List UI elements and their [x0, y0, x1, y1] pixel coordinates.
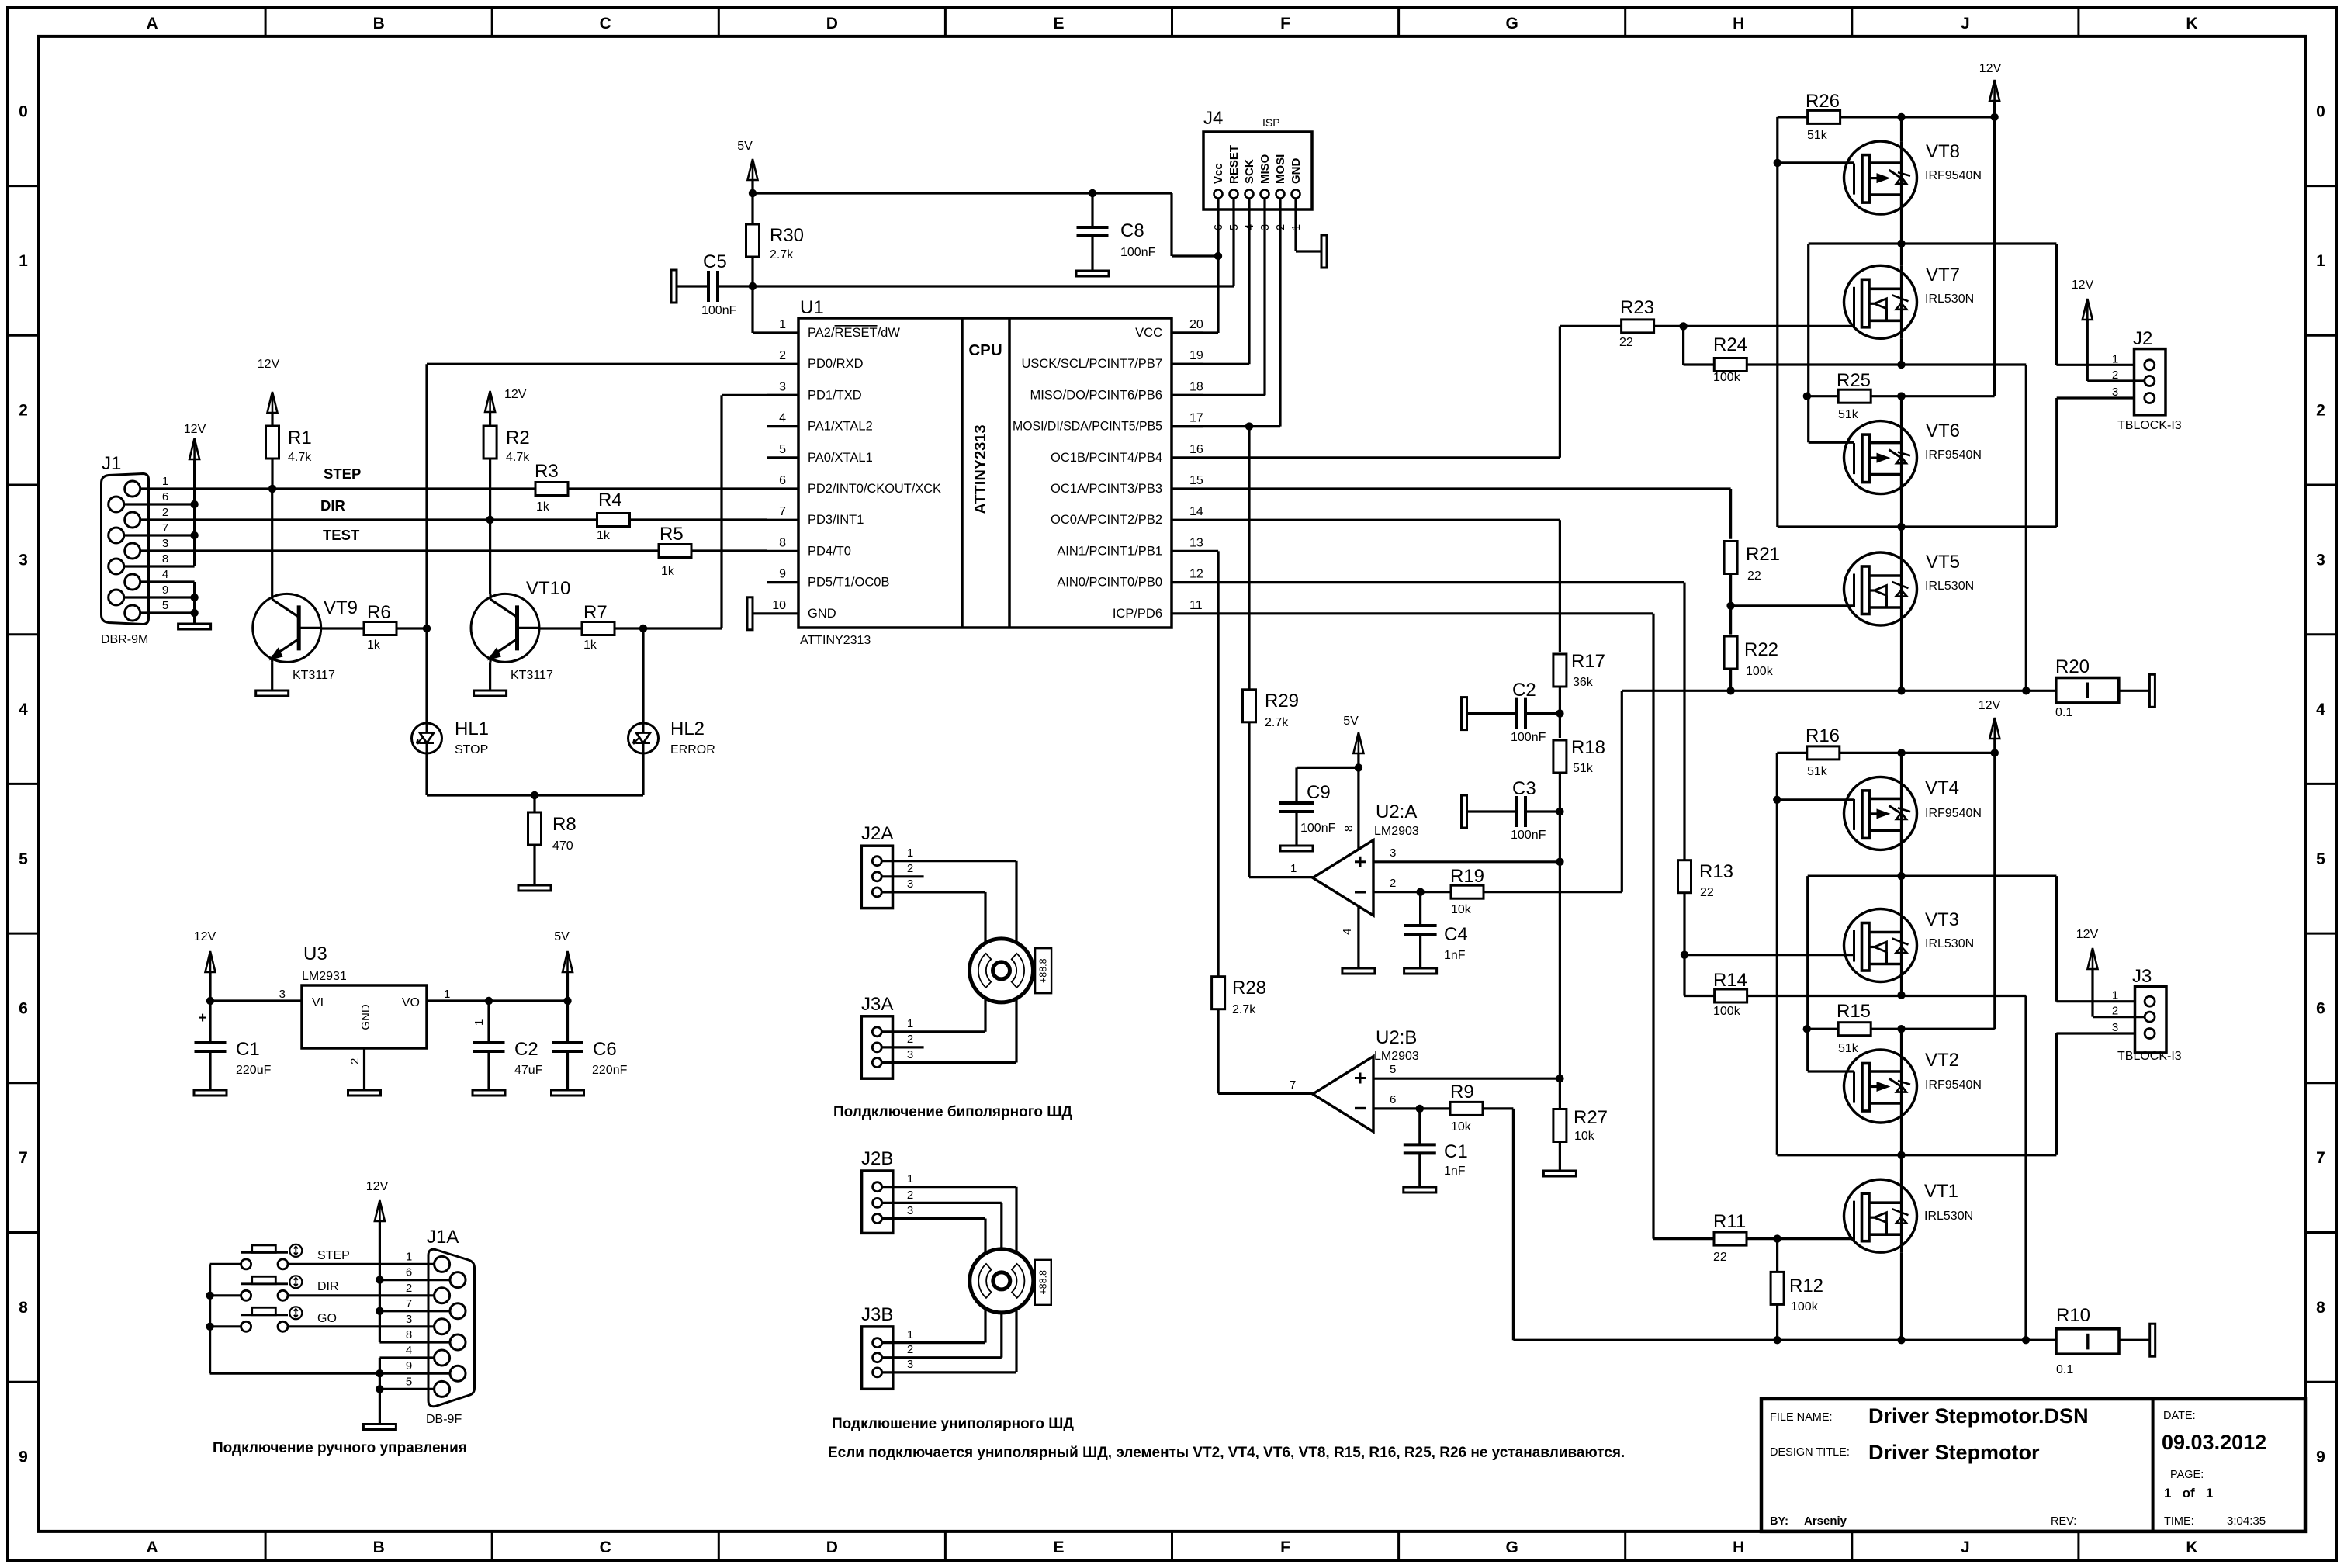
svg-text:J: J	[1961, 15, 1970, 33]
svg-text:R25: R25	[1837, 370, 1871, 391]
wire VT6 gate net	[1807, 244, 1809, 442]
svg-text:1nF: 1nF	[1444, 1165, 1466, 1178]
svg-text:12V: 12V	[366, 1180, 389, 1193]
J1 pin 8	[109, 559, 124, 574]
svg-text:6: 6	[2316, 999, 2325, 1017]
svg-text:17: 17	[1189, 412, 1203, 425]
svg-text:VT8: VT8	[1926, 141, 1960, 162]
svg-text:J1: J1	[102, 453, 121, 474]
svg-text:4: 4	[779, 412, 786, 425]
svg-text:J2: J2	[2133, 328, 2152, 349]
wire VT9 collector to STEP	[271, 489, 273, 594]
wire VT2 gate net	[1806, 876, 1809, 1071]
svg-text:8: 8	[19, 1299, 28, 1317]
connector J4 ISP	[1203, 132, 1312, 209]
svg-text:7: 7	[1290, 1078, 1296, 1092]
J1A pin 6	[450, 1272, 466, 1288]
svg-text:VT7: VT7	[1926, 265, 1960, 286]
svg-text:R23: R23	[1620, 297, 1654, 318]
svg-text:5: 5	[162, 599, 168, 612]
svg-text:0: 0	[2316, 102, 2325, 120]
svg-text:R9: R9	[1450, 1082, 1474, 1102]
svg-text:2: 2	[907, 1343, 913, 1356]
wire VT3 source to R14 node	[1900, 982, 1903, 995]
svg-text:STEP: STEP	[317, 1249, 350, 1262]
wire RESET net to U1 pin1	[753, 285, 1234, 287]
wire 12V to VT2 source	[1897, 1025, 1905, 1033]
svg-text:4: 4	[2316, 701, 2325, 718]
svg-text:VT4: VT4	[1925, 777, 1959, 798]
svg-text:R6: R6	[367, 602, 391, 623]
svg-text:220uF: 220uF	[236, 1064, 272, 1077]
svg-text:R14: R14	[1713, 970, 1747, 991]
U1 pin 10 stub	[767, 612, 798, 614]
capacitor C9	[1297, 767, 1359, 769]
wire J2B pin1 to motor B	[882, 1186, 1016, 1188]
J1A pin 8	[450, 1334, 466, 1350]
svg-text:2: 2	[907, 1033, 913, 1046]
wire output A1 to J2 pin1	[1809, 242, 2057, 244]
resistor R28	[1212, 977, 1225, 1009]
J4 pin circle 5 (RESET)	[1230, 190, 1238, 199]
svg-text:09.03.2012: 09.03.2012	[2162, 1431, 2266, 1454]
connector J2B	[862, 1171, 893, 1233]
transistor VT10 KT3117	[471, 594, 539, 662]
wire TEST line	[140, 549, 660, 552]
svg-text:1: 1	[162, 475, 168, 488]
wire VI input	[210, 999, 302, 1002]
svg-text:GND: GND	[359, 1004, 372, 1030]
resistor R24	[1682, 326, 1684, 365]
resistor R6	[321, 627, 364, 629]
svg-text:A: A	[146, 15, 158, 33]
transistor VT7 IRL530N	[1844, 265, 1917, 338]
svg-text:PD1/TXD: PD1/TXD	[808, 388, 862, 402]
svg-text:C1: C1	[1444, 1141, 1468, 1162]
svg-text:G: G	[1505, 15, 1518, 33]
resistor R5	[659, 545, 691, 558]
svg-text:J1A: J1A	[427, 1227, 459, 1248]
svg-text:15: 15	[1189, 474, 1203, 487]
node 5V junction	[749, 189, 757, 197]
wire switch common to ground net	[210, 1263, 241, 1265]
ground J4 pin1	[1294, 199, 1297, 252]
svg-text:IRF9540N: IRF9540N	[1925, 448, 1982, 462]
svg-text:9: 9	[2316, 1449, 2325, 1466]
resistor R13	[1683, 860, 1685, 862]
svg-text:4: 4	[162, 568, 168, 581]
J1A pin 9	[450, 1366, 466, 1381]
svg-text:51k: 51k	[1807, 129, 1828, 142]
svg-text:DATE:: DATE:	[2163, 1410, 2196, 1422]
svg-text:ATTINY2313: ATTINY2313	[800, 634, 871, 647]
svg-text:R20: R20	[2055, 656, 2090, 677]
svg-text:5V: 5V	[1343, 715, 1359, 728]
svg-text:36k: 36k	[1573, 676, 1594, 689]
svg-text:3: 3	[406, 1313, 412, 1326]
switch SB1 STEP	[241, 1259, 251, 1269]
J3 pin 2	[2145, 1012, 2155, 1022]
svg-text:18: 18	[1189, 380, 1203, 393]
svg-text:AIN0/PCINT0/PB0: AIN0/PCINT0/PB0	[1057, 576, 1162, 590]
svg-text:8: 8	[2316, 1299, 2325, 1317]
U1 pin 4 stub	[767, 425, 798, 427]
svg-text:1: 1	[19, 252, 28, 270]
svg-text:1: 1	[2112, 989, 2118, 1002]
svg-text:LM2931: LM2931	[302, 970, 347, 983]
resistor R25	[1807, 395, 1838, 397]
J1 pin 5	[125, 605, 140, 621]
transistor VT1 IRL530N	[1844, 1179, 1917, 1252]
LED HL1 STOP	[412, 723, 442, 753]
wire R14 line to sense line B	[1747, 995, 2026, 997]
svg-text:IRF9540N: IRF9540N	[1925, 169, 1982, 182]
wire VT4 to output B1	[1900, 830, 1903, 909]
capacitor C6 220nF	[566, 1001, 569, 1043]
connector J1 DBR-9M	[102, 474, 149, 625]
svg-text:STEP: STEP	[324, 466, 361, 482]
ground R8	[518, 885, 551, 891]
svg-text:3: 3	[2316, 551, 2325, 569]
resistor R10 0.1	[2056, 1329, 2119, 1354]
svg-text:IRF9540N: IRF9540N	[1925, 1078, 1982, 1092]
wire J4 SCK to U1 pin19	[1248, 199, 1250, 365]
U1 pin 19 stub	[1172, 363, 1203, 365]
svg-text:0: 0	[19, 102, 28, 120]
svg-text:100k: 100k	[1713, 1005, 1741, 1018]
U1 pin 18 stub	[1172, 394, 1203, 396]
wire VT5 source to sense line A	[1900, 625, 1903, 691]
svg-text:VT5: VT5	[1926, 552, 1960, 573]
U1 pin 16 stub	[1172, 456, 1203, 459]
svg-text:PA2/RESET/dW: PA2/RESET/dW	[808, 326, 900, 340]
svg-text:BY:: BY:	[1770, 1515, 1788, 1528]
svg-text:10k: 10k	[1574, 1130, 1595, 1143]
J1A pin 3	[435, 1319, 450, 1334]
svg-text:12V: 12V	[2072, 279, 2094, 292]
capacitor C3 100nF	[1462, 795, 1467, 828]
svg-text:16: 16	[1189, 443, 1203, 456]
svg-text:3: 3	[907, 1204, 913, 1217]
wire VT2 to output B2	[1900, 1103, 1903, 1181]
svg-text:2: 2	[162, 506, 168, 519]
svg-text:3:04:35: 3:04:35	[2227, 1514, 2266, 1528]
svg-text:1 of 1: 1 of 1	[2164, 1486, 2213, 1501]
U1 pin 15 stub	[1172, 487, 1203, 490]
svg-text:1: 1	[2316, 252, 2325, 270]
wire R9 to current sense B	[1484, 1107, 1514, 1109]
wire 5V rail to C8/J4	[751, 180, 753, 193]
svg-text:FILE NAME:: FILE NAME:	[1770, 1411, 1833, 1424]
wire VT8 to output A1	[1900, 195, 1903, 265]
svg-text:H: H	[1733, 15, 1744, 33]
svg-text:VO: VO	[402, 996, 420, 1009]
resistor R23	[1560, 325, 1621, 327]
svg-text:B: B	[373, 15, 385, 33]
svg-text:4.7k: 4.7k	[506, 451, 530, 464]
svg-text:5V: 5V	[554, 930, 570, 943]
svg-text:VT2: VT2	[1925, 1050, 1959, 1071]
svg-text:HL2: HL2	[670, 718, 705, 739]
resistor R1	[266, 426, 279, 459]
svg-text:R19: R19	[1450, 866, 1484, 887]
node output B1	[1897, 872, 1905, 880]
svg-text:1: 1	[779, 318, 786, 331]
capacitor C2 100nF	[1462, 697, 1467, 730]
svg-text:+: +	[198, 1010, 206, 1026]
wire VT1 source to sense line B	[1900, 1252, 1903, 1340]
J3 pin 3	[2145, 1029, 2155, 1039]
wire output B1 to J3 pin1	[1808, 874, 2057, 877]
svg-text:7: 7	[2316, 1149, 2325, 1167]
wire J2A pin3 to motor A	[881, 891, 985, 893]
svg-text:1: 1	[1290, 862, 1297, 875]
svg-text:4.7k: 4.7k	[288, 451, 312, 464]
ground U2:A pin4	[1357, 905, 1359, 968]
wire 12V to VT6 source	[1897, 393, 1905, 400]
svg-text:DIR: DIR	[317, 1280, 339, 1293]
svg-text:B: B	[373, 1539, 385, 1556]
wire J4 MISO to U1 pin18	[1263, 199, 1265, 396]
svg-text:100k: 100k	[1791, 1300, 1819, 1314]
wire VT8 gate net	[1776, 117, 1778, 527]
node C5/R30/RESET junction	[749, 282, 757, 290]
svg-text:GO: GO	[317, 1312, 337, 1325]
svg-text:R24: R24	[1713, 334, 1747, 355]
svg-text:22: 22	[1619, 336, 1633, 349]
svg-text:100nF: 100nF	[1511, 731, 1546, 744]
U1 pin 17 stub	[1172, 425, 1203, 427]
svg-text:R18: R18	[1571, 737, 1605, 758]
svg-text:7: 7	[162, 521, 168, 535]
svg-text:K: K	[2186, 15, 2197, 33]
svg-text:1: 1	[473, 1019, 486, 1026]
resistor R18	[1553, 740, 1567, 773]
svg-text:C8: C8	[1120, 220, 1144, 241]
svg-text:2: 2	[2316, 402, 2325, 420]
U1 pin 7 stub	[767, 519, 798, 521]
svg-text:8: 8	[779, 536, 786, 549]
resistor R12	[1776, 1239, 1778, 1272]
svg-text:3: 3	[907, 877, 913, 891]
U1 pin 8 stub	[767, 550, 798, 552]
wire J4 RESET stem	[1232, 199, 1234, 287]
svg-text:10k: 10k	[1451, 903, 1472, 916]
wire U3 GND to ground	[363, 1048, 365, 1090]
svg-text:2.7k: 2.7k	[770, 248, 794, 261]
svg-text:LM2903: LM2903	[1374, 825, 1419, 838]
motor A (bipolar)	[970, 939, 1034, 1002]
svg-text:G: G	[1505, 1539, 1518, 1556]
svg-text:1: 1	[907, 1328, 913, 1341]
svg-text:100nF: 100nF	[1300, 822, 1336, 835]
capacitor C5	[671, 270, 677, 303]
J1A pin 2	[435, 1288, 450, 1303]
resistor R21	[1724, 542, 1737, 574]
node R8 junction	[531, 791, 538, 799]
wire J3A pin1 to motor A	[881, 1030, 985, 1033]
U1 pin 20 stub	[1172, 331, 1203, 334]
svg-text:12: 12	[1189, 568, 1203, 581]
svg-text:R12: R12	[1789, 1276, 1823, 1296]
svg-text:C4: C4	[1444, 924, 1468, 945]
svg-text:OC1B/PCINT4/PB4: OC1B/PCINT4/PB4	[1051, 451, 1162, 465]
switch SB3 GO	[241, 1321, 251, 1331]
svg-text:51k: 51k	[1573, 762, 1594, 775]
J1 pin 2	[125, 512, 140, 528]
svg-text:MOSI/DI/SDA/PCINT5/PB5: MOSI/DI/SDA/PCINT5/PB5	[1013, 420, 1162, 434]
svg-text:TBLOCK-I3: TBLOCK-I3	[2117, 419, 2182, 432]
resistor R20 0.1	[2056, 678, 2119, 703]
svg-text:OC1A/PCINT3/PB3: OC1A/PCINT3/PB3	[1051, 482, 1162, 496]
svg-text:PD2/INT0/CKOUT/XCK: PD2/INT0/CKOUT/XCK	[808, 482, 941, 496]
svg-text:1: 1	[406, 1250, 412, 1263]
svg-text:100k: 100k	[1746, 665, 1774, 678]
capacitor C4	[1419, 892, 1421, 926]
ground R20	[2119, 690, 2149, 692]
svg-text:6: 6	[779, 474, 786, 487]
svg-text:J4: J4	[1203, 108, 1223, 129]
wire U2:B +input (pin5)	[1373, 1078, 1560, 1080]
wire chain 12V to VT8	[1900, 117, 1903, 141]
svg-text:VT9: VT9	[324, 597, 358, 618]
wire R11 to VT1 gate	[1747, 1237, 1854, 1240]
svg-text:2: 2	[1390, 877, 1396, 890]
wire R29 to MOSI net (pin17)	[1248, 427, 1250, 690]
transistor VT2 IRF9540N	[1844, 1050, 1917, 1123]
svg-text:MOSI: MOSI	[1274, 154, 1287, 184]
svg-text:REV:: REV:	[2051, 1515, 2076, 1528]
resistor R11	[1653, 1237, 1714, 1240]
svg-text:J3B: J3B	[861, 1304, 893, 1325]
svg-text:ERROR: ERROR	[670, 743, 715, 756]
U1 pin 9 stub	[767, 581, 798, 583]
svg-text:100nF: 100nF	[701, 304, 737, 317]
svg-text:3: 3	[2112, 1021, 2118, 1034]
svg-text:12V: 12V	[258, 358, 280, 371]
svg-text:22: 22	[1713, 1251, 1727, 1264]
LED HL2 ERROR	[628, 723, 659, 753]
svg-text:DESIGN TITLE:: DESIGN TITLE:	[1770, 1446, 1850, 1459]
svg-text:VT1: VT1	[1924, 1181, 1958, 1202]
svg-text:1k: 1k	[583, 639, 597, 652]
svg-text:6: 6	[406, 1266, 412, 1279]
wire J3B pin1 to motor B	[882, 1341, 985, 1344]
svg-text:E: E	[1053, 1539, 1064, 1556]
svg-text:1k: 1k	[597, 529, 611, 542]
svg-text:2: 2	[406, 1282, 412, 1295]
node DIR/R2/VT10 junction	[486, 516, 493, 524]
node output B2	[1897, 1151, 1905, 1159]
svg-text:C9: C9	[1307, 782, 1331, 803]
svg-text:C2: C2	[1512, 680, 1536, 701]
svg-text:KT3117: KT3117	[511, 669, 553, 682]
connector J2 TBLOCK-I3	[2135, 349, 2166, 415]
J2 pin 1	[2145, 360, 2155, 370]
capacitor C8	[1089, 189, 1096, 197]
svg-text:Полдключение биполярного ШД: Полдключение биполярного ШД	[833, 1104, 1072, 1120]
wire J3B pin3 to motor B	[882, 1371, 1016, 1373]
motor B (unipolar)	[970, 1249, 1034, 1313]
J4 pin circle 6 (Vcc)	[1214, 190, 1223, 199]
wire 12V to J1 pins 6,7,8	[193, 459, 196, 566]
svg-text:K: K	[2186, 1539, 2197, 1556]
J4 pin circle 3 (MISO)	[1261, 190, 1269, 199]
ground VT10 emitter	[489, 662, 491, 691]
svg-text:9: 9	[779, 568, 786, 581]
svg-text:1: 1	[907, 846, 913, 860]
svg-text:PD5/T1/OC0B: PD5/T1/OC0B	[808, 576, 889, 590]
svg-text:F: F	[1280, 15, 1290, 33]
svg-text:IRL530N: IRL530N	[1925, 937, 1974, 950]
svg-text:6: 6	[19, 999, 28, 1017]
svg-text:R3: R3	[535, 461, 559, 482]
U1 pin 3 stub	[767, 394, 798, 396]
svg-text:J3: J3	[2132, 966, 2152, 987]
svg-text:3: 3	[162, 537, 168, 550]
display +88.8 (motor B)	[1035, 1260, 1051, 1305]
svg-text:1k: 1k	[367, 639, 381, 652]
svg-text:5: 5	[1390, 1063, 1396, 1076]
svg-text:220nF: 220nF	[592, 1064, 628, 1077]
svg-text:2: 2	[907, 862, 913, 875]
wire 12V rail B	[1993, 739, 1996, 1029]
svg-text:VT10: VT10	[526, 578, 570, 599]
svg-text:7: 7	[779, 505, 786, 518]
svg-text:13: 13	[1189, 536, 1203, 549]
svg-text:LM2903: LM2903	[1374, 1050, 1419, 1063]
wire VT4 gate net	[1776, 753, 1778, 1154]
svg-text:C1: C1	[236, 1039, 260, 1060]
svg-text:1nF: 1nF	[1444, 949, 1466, 962]
svg-text:0.1: 0.1	[2055, 706, 2072, 719]
svg-text:R15: R15	[1837, 1001, 1871, 1022]
wire J2A pin2 stub	[881, 875, 923, 877]
svg-text:12V: 12V	[1979, 62, 2002, 75]
transistor VT4 IRF9540N	[1844, 777, 1917, 850]
svg-text:0.1: 0.1	[2056, 1363, 2073, 1376]
svg-text:19: 19	[1189, 349, 1203, 362]
J1 pin 7	[109, 528, 124, 543]
resistor R3	[535, 483, 568, 496]
svg-text:C3: C3	[1512, 778, 1536, 799]
J1 pin 1	[125, 481, 140, 497]
J1A pin 1	[435, 1256, 450, 1272]
J1A pin 7	[450, 1303, 466, 1319]
svg-text:C2: C2	[514, 1039, 538, 1060]
connector J2A	[861, 846, 892, 908]
svg-text:3: 3	[19, 551, 28, 569]
node STEP/R1/VT9 junction	[268, 485, 276, 493]
svg-text:2: 2	[779, 349, 786, 362]
wire J1A pins 4,9,5 to ground	[379, 1356, 434, 1359]
svg-text:MISO/DO/PCINT6/PB6: MISO/DO/PCINT6/PB6	[1030, 388, 1162, 402]
svg-text:Подклюшение униполярного ШД: Подклюшение униполярного ШД	[832, 1416, 1074, 1432]
svg-text:HL1: HL1	[455, 718, 489, 739]
resistor R8	[533, 795, 535, 812]
wire 12V to J1A pins 6,7,8	[379, 1221, 381, 1342]
svg-text:22: 22	[1700, 886, 1714, 899]
svg-text:+88.8: +88.8	[1038, 958, 1049, 983]
svg-text:VI: VI	[312, 996, 324, 1009]
svg-text:VT6: VT6	[1926, 421, 1960, 441]
svg-text:A: A	[146, 1539, 158, 1556]
svg-text:8: 8	[406, 1328, 412, 1341]
title block	[1761, 1399, 2305, 1532]
svg-text:DBR-9M: DBR-9M	[101, 633, 148, 646]
svg-text:3: 3	[779, 380, 786, 393]
svg-text:1: 1	[907, 1172, 913, 1186]
